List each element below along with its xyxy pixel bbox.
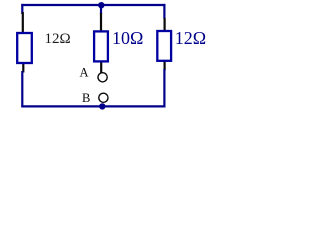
junction dot bottom node xyxy=(99,103,105,109)
svg-text:B: B xyxy=(82,91,90,105)
wire left branch upper (navy part) xyxy=(21,4,23,14)
wire right branch lower lead (black) xyxy=(164,61,166,71)
wire middle branch lower lead (black) xyxy=(100,62,102,74)
wire top horizontal xyxy=(21,4,165,6)
wire middle branch upper lead (black) xyxy=(100,13,102,32)
wire middle branch upper (navy part) xyxy=(100,4,102,14)
wire left branch upper lead (black) xyxy=(22,12,24,33)
resistor R2 10ohm middle xyxy=(94,31,108,61)
wire right branch lower (navy part) xyxy=(163,69,165,108)
terminal A circle xyxy=(98,73,107,82)
wire bottom horizontal xyxy=(21,105,165,107)
terminal B circle xyxy=(99,93,108,102)
svg-text:12Ω: 12Ω xyxy=(175,28,206,48)
junction dot top node xyxy=(98,2,104,8)
resistor R3 12ohm right xyxy=(157,31,171,61)
wire right branch upper lead (black) xyxy=(164,18,166,31)
svg-text:10Ω: 10Ω xyxy=(112,28,143,48)
svg-text:12Ω: 12Ω xyxy=(45,31,71,47)
resistor R1 12ohm left xyxy=(17,33,32,63)
svg-text:A: A xyxy=(80,66,89,80)
wire right branch upper (navy part) xyxy=(163,4,165,19)
wire left branch lower lead (black) xyxy=(22,63,24,73)
wire left branch lower (navy part) xyxy=(21,71,23,108)
